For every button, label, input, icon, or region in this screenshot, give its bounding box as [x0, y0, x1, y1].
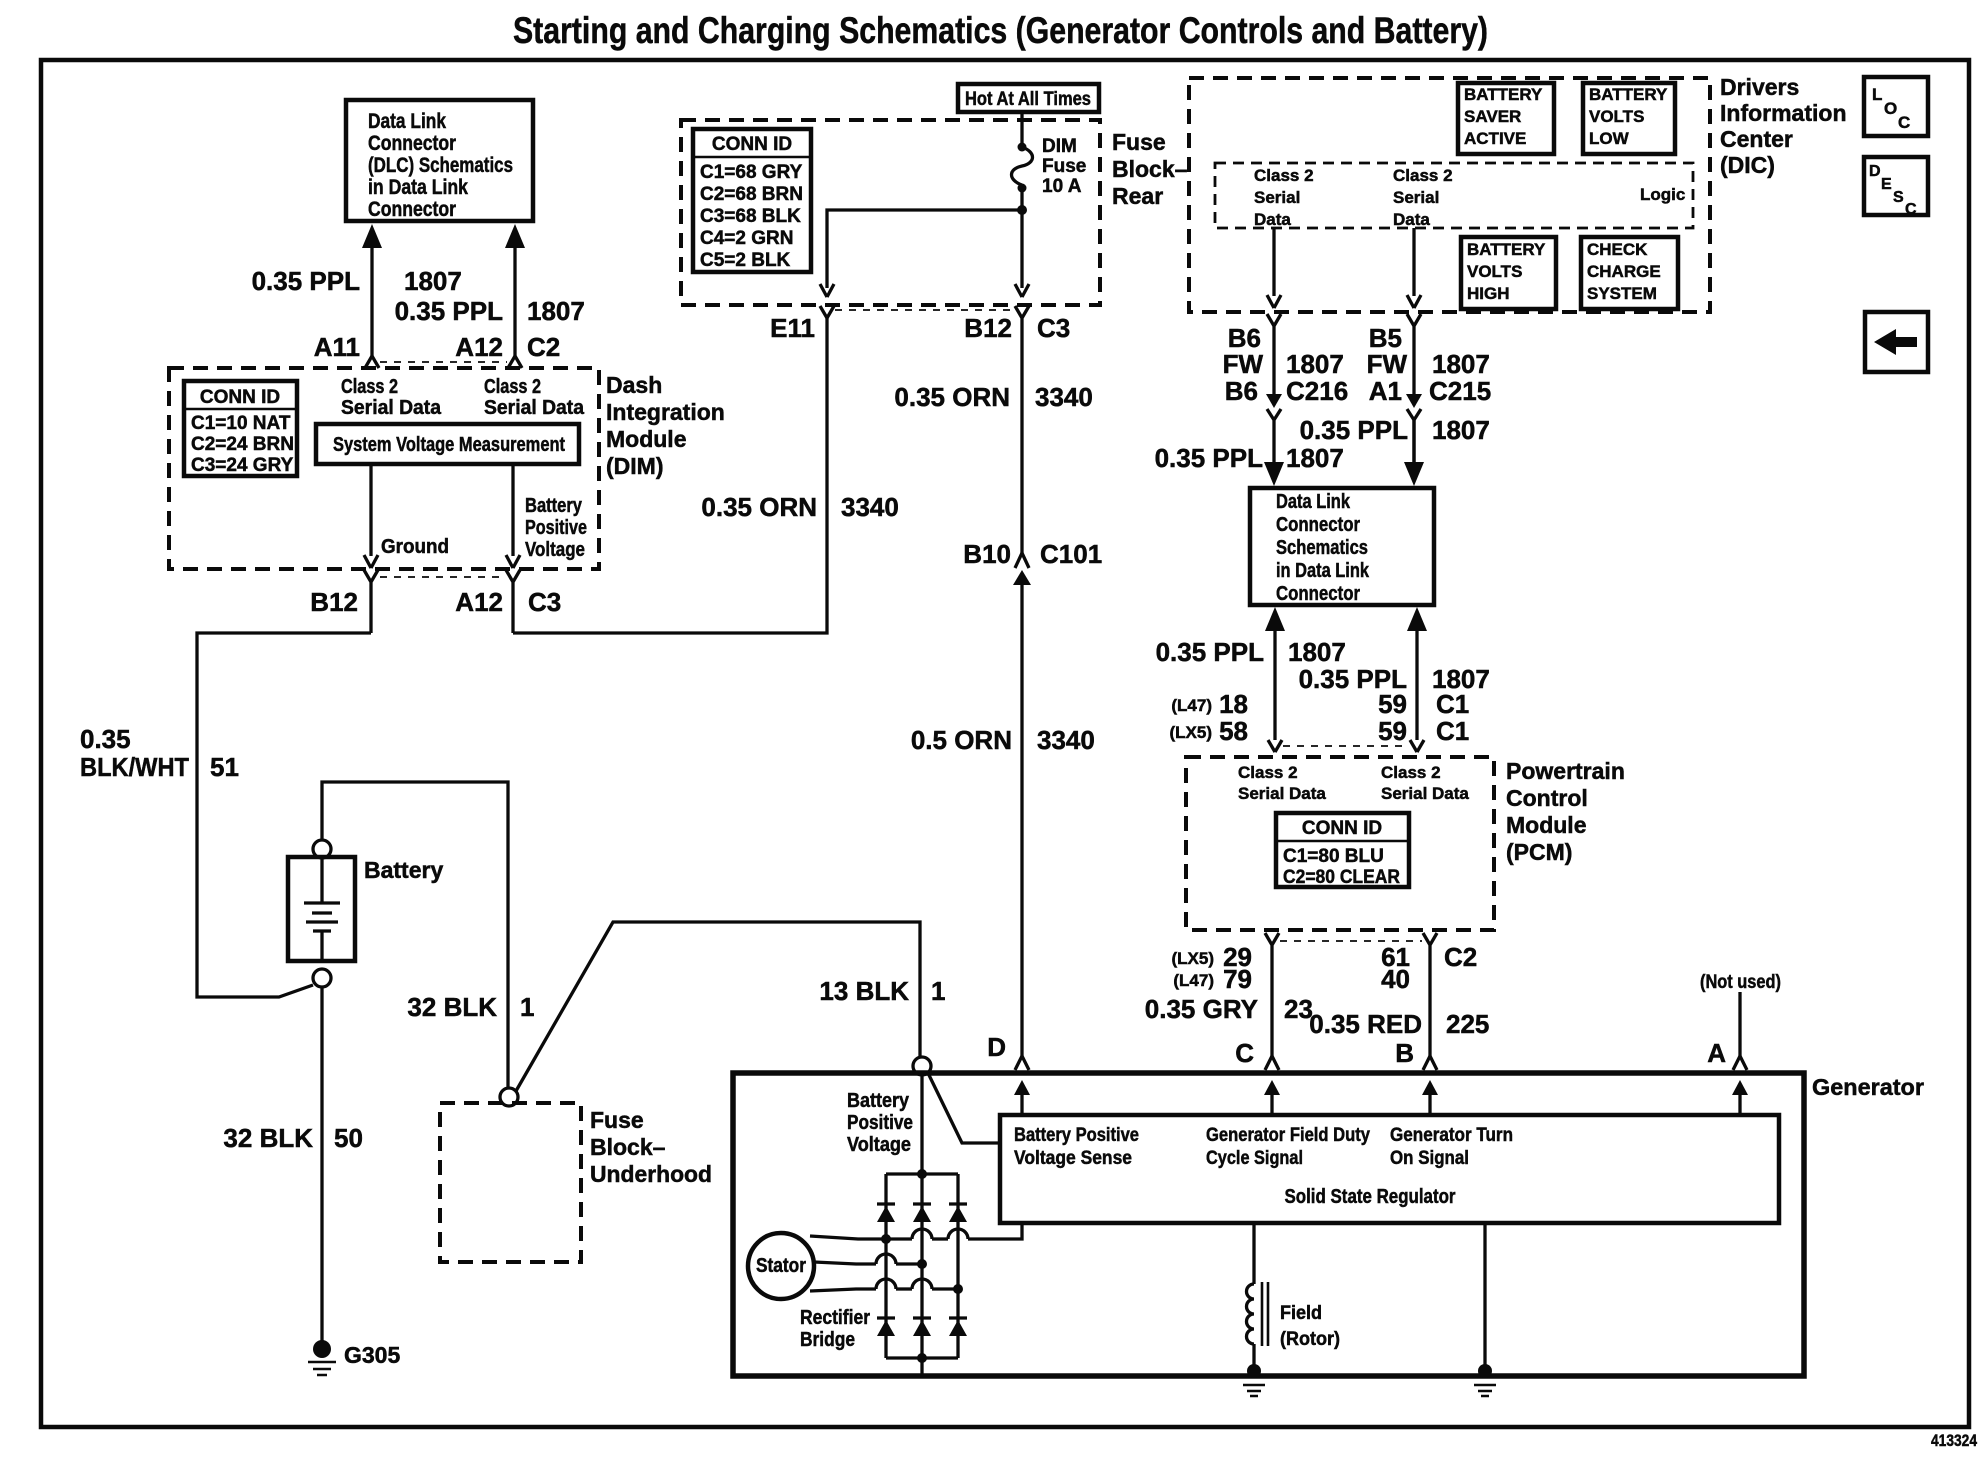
svg-text:Connector: Connector — [368, 132, 456, 155]
svg-text:C101: C101 — [1040, 539, 1102, 569]
thin connector dash line PCM top — [1283, 745, 1408, 747]
battery saver active indicator — [1458, 83, 1554, 154]
wire fuse to C3 drop — [1020, 210, 1023, 288]
hot at all times box — [958, 84, 1099, 112]
svg-text:0.35 ORN: 0.35 ORN — [701, 492, 817, 522]
svg-text:LOW: LOW — [1589, 129, 1630, 148]
svg-text:C1=10 NAT: C1=10 NAT — [191, 413, 291, 434]
svg-text:32 BLK: 32 BLK — [407, 992, 497, 1022]
inline connector C101 — [1013, 553, 1031, 1056]
svg-text:(Rotor): (Rotor) — [1280, 1329, 1340, 1350]
svg-text:C1=80 BLU: C1=80 BLU — [1283, 846, 1384, 867]
svg-text:Class 2: Class 2 — [341, 376, 398, 398]
diode bottom middle — [913, 1318, 931, 1336]
svg-text:1807: 1807 — [527, 296, 585, 326]
svg-text:Fuse: Fuse — [1112, 129, 1166, 155]
svg-text:Fuse: Fuse — [1042, 156, 1086, 177]
solid state regulator box — [1000, 1115, 1779, 1223]
svg-text:SYSTEM: SYSTEM — [1587, 284, 1657, 303]
turn-on signal ground wire — [1483, 1223, 1486, 1371]
inline connector C216 — [1266, 394, 1282, 462]
pin D fork at generator — [1015, 1056, 1029, 1070]
DIM battery positive voltage wire with arrow — [506, 464, 587, 568]
svg-text:C: C — [1905, 201, 1917, 218]
svg-text:D: D — [1869, 163, 1881, 180]
battery negative terminal circle — [313, 969, 331, 987]
svg-text:Logic: Logic — [1640, 185, 1685, 204]
svg-text:Center: Center — [1720, 126, 1793, 152]
svg-text:1: 1 — [931, 976, 945, 1006]
diode bottom right — [949, 1318, 967, 1336]
svg-text:A1: A1 — [1369, 376, 1402, 406]
svg-text:Battery: Battery — [525, 495, 583, 517]
field core bars — [1262, 1282, 1268, 1346]
svg-text:Rectifier: Rectifier — [800, 1307, 870, 1329]
field ground — [1243, 1364, 1265, 1396]
bridge to ground wire — [920, 1358, 923, 1376]
svg-text:Serial: Serial — [1254, 188, 1300, 207]
fork A at generator — [1733, 1056, 1747, 1070]
loc button — [1864, 77, 1928, 136]
DIC right wire down with arrow — [1412, 228, 1415, 296]
wire generator output to regulator sense — [928, 1073, 1000, 1143]
generator battery terminal circle — [913, 1057, 931, 1075]
svg-text:1807: 1807 — [404, 266, 462, 296]
arrow into generator C — [1264, 1080, 1280, 1115]
svg-text:E11: E11 — [770, 313, 815, 343]
svg-text:Data: Data — [1254, 210, 1291, 229]
PCM conn id table — [1276, 813, 1409, 888]
arrow into generator D — [1014, 1080, 1030, 1115]
svg-text:Rear: Rear — [1112, 183, 1163, 209]
svg-text:18: 18 — [1219, 689, 1248, 719]
svg-text:D: D — [987, 1032, 1006, 1062]
fork at PCM top (left) — [1268, 740, 1282, 752]
svg-text:413324: 413324 — [1931, 1431, 1977, 1450]
stator circle — [748, 1233, 814, 1299]
svg-text:(Not used): (Not used) — [1700, 972, 1781, 993]
svg-text:C2=80 CLEAR: C2=80 CLEAR — [1283, 867, 1400, 888]
inline connector C215 — [1406, 394, 1422, 462]
powertrain control module dashed box — [1186, 757, 1494, 930]
svg-text:E: E — [1881, 176, 1892, 193]
svg-text:Serial Data: Serial Data — [1381, 784, 1469, 803]
svg-text:VOLTS: VOLTS — [1467, 262, 1522, 281]
diode top right — [949, 1204, 967, 1222]
desc button — [1864, 157, 1928, 218]
svg-text:0.35 PPL: 0.35 PPL — [1155, 443, 1264, 473]
svg-text:CONN ID: CONN ID — [200, 387, 280, 408]
svg-text:1807: 1807 — [1288, 637, 1346, 667]
svg-text:Voltage: Voltage — [847, 1134, 911, 1156]
svg-text:1807: 1807 — [1432, 415, 1490, 445]
svg-text:Bridge: Bridge — [800, 1329, 855, 1351]
svg-text:Class 2: Class 2 — [1381, 763, 1441, 782]
svg-text:50: 50 — [334, 1123, 363, 1153]
connector fork E11 — [820, 306, 834, 318]
svg-text:79: 79 — [1223, 964, 1252, 994]
svg-text:Battery: Battery — [364, 857, 443, 883]
diode top left — [877, 1204, 895, 1222]
fuse output junction — [1017, 205, 1027, 215]
svg-text:CONN ID: CONN ID — [1302, 818, 1382, 839]
svg-text:(DLC) Schematics: (DLC) Schematics — [368, 154, 513, 177]
svg-text:Connector: Connector — [1276, 514, 1360, 536]
svg-text:FW: FW — [1367, 349, 1408, 379]
stator phase 1 wire — [810, 1223, 1022, 1244]
fuse block underhood dashed box — [440, 1103, 581, 1262]
fuse block rear dashed box — [681, 120, 1100, 305]
svg-text:A11: A11 — [314, 332, 360, 362]
wire battery positive to fuse block underhood — [322, 782, 508, 1088]
svg-text:C3: C3 — [1037, 313, 1070, 343]
svg-text:CHECK: CHECK — [1587, 240, 1648, 259]
svg-text:C: C — [1898, 113, 1910, 132]
svg-text:Generator Turn: Generator Turn — [1390, 1125, 1513, 1146]
svg-text:Block–: Block– — [590, 1134, 666, 1160]
svg-text:1807: 1807 — [1432, 349, 1490, 379]
svg-text:Integration: Integration — [606, 399, 725, 425]
svg-text:10 A: 10 A — [1042, 176, 1082, 197]
svg-text:Battery Positive: Battery Positive — [1014, 1125, 1139, 1146]
svg-text:3340: 3340 — [1037, 725, 1095, 755]
svg-text:(DIC): (DIC) — [1720, 152, 1775, 178]
svg-text:Field: Field — [1280, 1303, 1322, 1324]
svg-text:B12: B12 — [310, 587, 358, 617]
svg-text:C2: C2 — [527, 332, 560, 362]
battery volts high indicator — [1461, 237, 1556, 309]
svg-text:Serial: Serial — [1393, 188, 1439, 207]
svg-text:Cycle Signal: Cycle Signal — [1206, 1148, 1303, 1169]
wire circle to rectifier bridge — [920, 1075, 923, 1174]
rectifier bridge frame — [886, 1174, 958, 1358]
svg-text:A12: A12 — [455, 332, 503, 362]
svg-text:(L47): (L47) — [1173, 971, 1214, 990]
svg-text:1807: 1807 — [1286, 443, 1344, 473]
svg-text:Positive: Positive — [525, 517, 587, 539]
svg-text:0.5 ORN: 0.5 ORN — [911, 725, 1012, 755]
svg-text:Powertrain: Powertrain — [1506, 758, 1625, 784]
wire fuse to E11 drop — [827, 210, 1022, 288]
fuse block underhood terminal circle — [500, 1088, 518, 1106]
svg-text:(LX5): (LX5) — [1172, 949, 1215, 968]
svg-text:BATTERY: BATTERY — [1464, 85, 1543, 104]
svg-text:C216: C216 — [1286, 376, 1348, 406]
svg-text:On Signal: On Signal — [1390, 1148, 1469, 1169]
svg-text:Module: Module — [1506, 812, 1587, 838]
connector fork A12/C3 under DIM — [506, 570, 520, 633]
svg-text:C1: C1 — [1436, 716, 1469, 746]
svg-text:C3=24 GRY: C3=24 GRY — [191, 455, 294, 476]
svg-text:Ground: Ground — [381, 536, 449, 558]
diode top middle — [913, 1204, 931, 1222]
svg-text:Schematics: Schematics — [1276, 537, 1368, 559]
svg-text:(LX5): (LX5) — [1170, 723, 1213, 742]
DIM ground wire with arrow — [364, 464, 449, 568]
DIC left wire down with arrow — [1272, 228, 1275, 296]
svg-text:C215: C215 — [1429, 376, 1491, 406]
svg-text:59: 59 — [1378, 689, 1407, 719]
svg-text:C: C — [1235, 1038, 1254, 1068]
fork C under PCM — [1265, 933, 1279, 1056]
svg-text:Fuse: Fuse — [590, 1107, 644, 1133]
logic dashed box — [1215, 163, 1693, 228]
fork B6 under DIC — [1267, 314, 1281, 394]
svg-text:Data Link: Data Link — [1276, 491, 1351, 513]
stator phase 2 wire — [814, 1254, 927, 1269]
svg-text:BLK/WHT: BLK/WHT — [80, 752, 189, 782]
svg-text:Drivers: Drivers — [1720, 74, 1799, 100]
svg-text:40: 40 — [1381, 964, 1410, 994]
svg-text:C2=24 BRN: C2=24 BRN — [191, 434, 294, 455]
wire A12/C2 to DLC with arrow — [505, 224, 525, 368]
svg-text:3340: 3340 — [841, 492, 899, 522]
svg-text:Hot At All Times: Hot At All Times — [965, 89, 1091, 110]
thin connector dash line B12-C3 — [380, 576, 505, 578]
svg-text:ACTIVE: ACTIVE — [1464, 129, 1526, 148]
svg-text:Generator: Generator — [1812, 1074, 1924, 1100]
svg-text:0.35 PPL: 0.35 PPL — [1300, 415, 1409, 445]
svg-text:1: 1 — [520, 992, 534, 1022]
svg-text:13 BLK: 13 BLK — [819, 976, 909, 1006]
battery box — [288, 857, 355, 961]
svg-text:C2: C2 — [1444, 942, 1477, 972]
battery positive terminal circle — [313, 840, 331, 858]
fork at PCM top (right) — [1410, 740, 1424, 752]
fork B at generator — [1423, 1056, 1437, 1070]
svg-text:51: 51 — [210, 752, 239, 782]
svg-text:FW: FW — [1223, 349, 1264, 379]
svg-text:Class 2: Class 2 — [1238, 763, 1298, 782]
svg-text:Module: Module — [606, 426, 687, 452]
check charge system indicator — [1581, 237, 1678, 309]
svg-text:32 BLK: 32 BLK — [223, 1123, 313, 1153]
arrow into generator B — [1422, 1080, 1438, 1115]
svg-text:Dash: Dash — [606, 372, 662, 398]
svg-text:B: B — [1395, 1038, 1414, 1068]
wire A (not used) — [1738, 992, 1741, 1056]
svg-text:C2=68 BRN: C2=68 BRN — [700, 184, 803, 205]
svg-text:Positive: Positive — [847, 1112, 913, 1134]
svg-text:3340: 3340 — [1035, 382, 1093, 412]
junction bridge top — [917, 1169, 927, 1179]
svg-text:Connector: Connector — [368, 198, 456, 221]
svg-text:Data: Data — [1393, 210, 1430, 229]
svg-text:Voltage: Voltage — [525, 539, 585, 561]
svg-text:0.35 ORN: 0.35 ORN — [894, 382, 1010, 412]
DIM fuse 10A — [1012, 112, 1087, 210]
svg-text:VOLTS: VOLTS — [1589, 107, 1644, 126]
svg-text:C1: C1 — [1436, 689, 1469, 719]
svg-text:0.35 PPL: 0.35 PPL — [252, 266, 361, 296]
svg-text:(L47): (L47) — [1171, 696, 1212, 715]
fork B5 under DIC — [1407, 314, 1421, 394]
field coil — [1247, 1284, 1254, 1344]
svg-text:C5=2 BLK: C5=2 BLK — [700, 250, 791, 271]
ground G305 — [308, 1340, 336, 1375]
svg-text:B10: B10 — [963, 539, 1011, 569]
svg-text:C3: C3 — [528, 587, 561, 617]
wire A11 to DLC with arrow — [362, 224, 382, 368]
arrow into DLC (left) — [1264, 462, 1284, 486]
system voltage measurement box — [316, 424, 579, 464]
svg-text:BATTERY: BATTERY — [1467, 240, 1546, 259]
fork B under PCM — [1423, 933, 1437, 1056]
svg-text:Data Link: Data Link — [368, 110, 446, 133]
svg-text:CHARGE: CHARGE — [1587, 262, 1661, 281]
svg-text:0.35 PPL: 0.35 PPL — [395, 296, 504, 326]
svg-text:1807: 1807 — [1286, 349, 1344, 379]
arrow up into DLC bottom (right) — [1407, 607, 1427, 740]
svg-text:C4=2 GRN: C4=2 GRN — [700, 228, 793, 249]
svg-text:B6: B6 — [1225, 376, 1258, 406]
svg-text:Underhood: Underhood — [590, 1161, 712, 1187]
svg-text:58: 58 — [1219, 716, 1248, 746]
svg-text:in Data Link: in Data Link — [1276, 560, 1370, 582]
turn-on ground — [1474, 1364, 1496, 1396]
svg-text:0.35: 0.35 — [80, 724, 131, 754]
svg-text:L: L — [1872, 85, 1882, 104]
thin connector dash line A11-A12 — [380, 361, 507, 363]
battery cell plates — [304, 857, 340, 961]
wire C3 to E11 riser — [513, 317, 827, 633]
svg-text:0.35 PPL: 0.35 PPL — [1156, 637, 1265, 667]
svg-text:Block–: Block– — [1112, 156, 1188, 182]
svg-text:CONN ID: CONN ID — [712, 134, 792, 155]
svg-text:in Data Link: in Data Link — [368, 176, 468, 199]
svg-text:HIGH: HIGH — [1467, 284, 1510, 303]
svg-text:SAVER: SAVER — [1464, 107, 1521, 126]
svg-text:0.35 GRY: 0.35 GRY — [1145, 994, 1258, 1024]
field coil wire — [1252, 1223, 1255, 1284]
svg-text:Voltage Sense: Voltage Sense — [1014, 1148, 1132, 1169]
connector fork B12/C3 under fuse block — [1015, 306, 1029, 553]
svg-text:Control: Control — [1506, 785, 1588, 811]
svg-text:Class 2: Class 2 — [1393, 166, 1453, 185]
svg-text:BATTERY: BATTERY — [1589, 85, 1668, 104]
svg-text:Class 2: Class 2 — [484, 376, 541, 398]
arrow into DLC (right) — [1404, 420, 1424, 486]
field ground wire — [1252, 1344, 1255, 1371]
thin connector dash line E11-B12 — [835, 309, 1013, 311]
svg-text:Serial Data: Serial Data — [484, 397, 585, 419]
fork C at generator — [1265, 1056, 1279, 1070]
svg-text:G305: G305 — [344, 1342, 400, 1368]
wire fuse block underhood to generator (13 BLK) — [516, 922, 920, 1091]
svg-text:Class 2: Class 2 — [1254, 166, 1314, 185]
data link connector box (right) — [1250, 488, 1434, 605]
svg-text:O: O — [1884, 99, 1897, 118]
back arrow button — [1865, 312, 1928, 372]
svg-text:(PCM): (PCM) — [1506, 839, 1572, 865]
svg-text:59: 59 — [1378, 716, 1407, 746]
svg-text:Serial Data: Serial Data — [1238, 784, 1326, 803]
drivers information center dashed box — [1189, 78, 1710, 312]
generator box — [733, 1073, 1804, 1376]
svg-text:Generator Field Duty: Generator Field Duty — [1206, 1125, 1370, 1146]
arrow up into DLC bottom (left) — [1265, 607, 1285, 740]
connector fork B12 under DIM — [364, 570, 378, 633]
svg-text:Serial Data: Serial Data — [341, 397, 442, 419]
svg-text:C3=68 BLK: C3=68 BLK — [700, 206, 801, 227]
svg-text:0.35 RED: 0.35 RED — [1309, 1009, 1422, 1039]
wire B12 to ground path G305 side — [197, 633, 371, 997]
svg-text:225: 225 — [1446, 1009, 1489, 1039]
svg-text:A: A — [1707, 1038, 1726, 1068]
arrow E11 at fuse block edge — [820, 284, 834, 297]
svg-text:System Voltage Measurement: System Voltage Measurement — [333, 434, 565, 456]
thin connector dash line PCM bottom — [1280, 940, 1422, 942]
arrow C3 at fuse block edge — [1015, 284, 1029, 297]
svg-text:DIM: DIM — [1042, 136, 1077, 157]
svg-text:Stator: Stator — [756, 1255, 806, 1277]
svg-text:C1=68 GRY: C1=68 GRY — [700, 162, 803, 183]
svg-text:Solid State Regulator: Solid State Regulator — [1285, 1186, 1456, 1208]
stator phase 3 wire — [810, 1279, 963, 1294]
arrow into generator A — [1732, 1080, 1748, 1115]
svg-text:Battery: Battery — [847, 1090, 910, 1112]
svg-text:Starting and Charging Schemati: Starting and Charging Schematics (Genera… — [513, 10, 1488, 51]
diode bottom left — [877, 1318, 895, 1336]
svg-text:(DIM): (DIM) — [606, 453, 663, 479]
dash integration module DIM dashed box — [169, 368, 599, 569]
svg-text:S: S — [1893, 189, 1904, 206]
svg-text:B12: B12 — [964, 313, 1012, 343]
svg-text:Connector: Connector — [1276, 583, 1360, 605]
data link connector box (top-left) — [346, 100, 533, 221]
svg-text:A12: A12 — [455, 587, 503, 617]
DIM conn id table — [184, 381, 297, 476]
wire battery negative to G305 — [320, 987, 323, 1342]
fuse block conn id table — [693, 129, 811, 272]
battery volts low indicator — [1583, 83, 1675, 154]
svg-text:Information: Information — [1720, 100, 1847, 126]
